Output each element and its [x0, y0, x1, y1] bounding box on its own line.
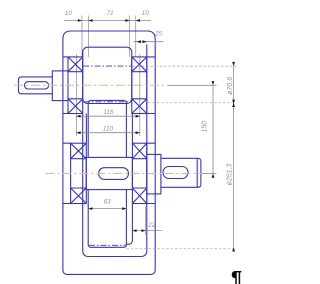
svg-text:ø251,3: ø251,3: [226, 164, 233, 186]
svg-text:10: 10: [65, 10, 73, 17]
svg-text:71: 71: [106, 10, 114, 17]
svg-text:116: 116: [103, 109, 114, 116]
svg-text:10: 10: [142, 10, 150, 17]
svg-text:63: 63: [103, 199, 111, 206]
svg-text:110: 110: [103, 126, 114, 133]
svg-text:25: 25: [154, 31, 163, 38]
svg-text:ø70,6: ø70,6: [227, 77, 234, 95]
svg-text:150: 150: [201, 121, 208, 133]
svg-text:22: 22: [147, 222, 156, 229]
svg-text:¶: ¶: [231, 268, 242, 284]
